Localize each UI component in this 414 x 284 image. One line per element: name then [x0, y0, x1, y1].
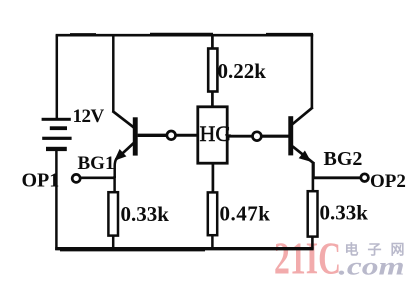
- resistor R4 0.33k body: [308, 191, 318, 236]
- wire left rail upper: [56, 35, 59, 119]
- wire emitter node to OP2: [313, 176, 362, 179]
- terminal OP2 circle: [361, 174, 369, 182]
- wire node to base Q2: [261, 135, 289, 138]
- wire emitter node to R4: [312, 163, 315, 192]
- transistor Q1 BG1 emitter wire: [115, 143, 134, 178]
- transistor Q1 BG1 emitter arrow: [114, 149, 126, 161]
- svg-text:BG1: BG1: [78, 153, 115, 174]
- wire OP1 to emitter node: [81, 177, 116, 180]
- wire top rail: [56, 34, 314, 35]
- svg-text:0.47k: 0.47k: [220, 202, 271, 226]
- transistor Q2 BG2 collector wire: [292, 34, 313, 125]
- svg-text:HG: HG: [200, 121, 232, 146]
- transistor Q1 BG1 base bar: [133, 117, 138, 155]
- svg-text:21IC: 21IC: [274, 234, 341, 284]
- wire HG to right node: [227, 135, 253, 138]
- svg-text:0.22k: 0.22k: [218, 59, 267, 83]
- wire node to HG: [176, 134, 199, 137]
- resistor R3 0.47k body: [208, 192, 217, 235]
- battery B1 12V: [42, 118, 72, 151]
- svg-text:0.33k: 0.33k: [121, 202, 170, 226]
- wire R4 to bottom rail: [311, 236, 314, 249]
- wire R1 to bottom rail: [112, 236, 115, 249]
- HG block U1: [198, 107, 227, 163]
- wire emitter node to R1: [113, 176, 116, 193]
- transistor Q2 BG2 emitter wire: [293, 146, 314, 178]
- svg-text:12V: 12V: [73, 106, 105, 127]
- transistor Q2 BG2 emitter arrow: [299, 151, 312, 162]
- resistor R2 0.22k body: [208, 49, 217, 92]
- resistor R1 0.33k body: [108, 192, 118, 235]
- node circle left: [167, 131, 176, 140]
- wire base Q1 to node: [138, 134, 167, 137]
- svg-text:BG2: BG2: [324, 148, 363, 170]
- node circle right: [253, 132, 262, 141]
- wire HG to R3: [212, 163, 215, 193]
- svg-text:OP2: OP2: [370, 171, 406, 192]
- svg-text:OP1: OP1: [22, 170, 60, 192]
- transistor Q1 BG1 collector wire: [113, 34, 135, 128]
- watermark 21IC: [274, 234, 341, 284]
- wire R3 to bottom rail: [211, 235, 214, 249]
- wire left rail lower: [55, 151, 58, 251]
- wire R2 to HG box: [211, 91, 214, 108]
- svg-text:0.33k: 0.33k: [320, 201, 369, 225]
- terminal OP1 circle: [72, 174, 80, 182]
- wire bottom rail: [55, 249, 313, 251]
- transistor Q2 BG2 base bar: [288, 116, 293, 155]
- wire top rail to R2: [211, 34, 214, 49]
- svg-text:.com: .com: [339, 254, 405, 281]
